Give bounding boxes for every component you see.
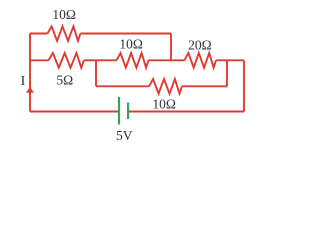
svg-text:5V: 5V [116, 128, 133, 143]
current arrow I [26, 87, 34, 93]
wire top row right of R1 [81, 33, 172, 35]
wire lower row right segment [182, 85, 227, 87]
resistor R2 5 ohm [49, 53, 85, 68]
svg-text:5Ω: 5Ω [56, 72, 73, 87]
wire bottom right of battery [128, 111, 244, 113]
resistor R4 20 ohm [185, 53, 217, 68]
wire middle row right of R4 [216, 59, 244, 61]
wire middle row left segment [30, 59, 49, 61]
svg-text:10Ω: 10Ω [52, 7, 76, 22]
svg-text:I: I [21, 74, 26, 89]
svg-text:10Ω: 10Ω [152, 97, 176, 112]
wire left vertical [29, 34, 31, 112]
wire vertical lower-row up to middle row [226, 60, 228, 86]
resistor R5 10 ohm lower [149, 79, 182, 94]
battery B1 long plate [118, 97, 120, 125]
wire lower row left segment [96, 85, 149, 87]
battery B1 short plate [127, 103, 129, 120]
wire vertical from top row down to middle row [170, 34, 172, 61]
svg-text:20Ω: 20Ω [188, 37, 212, 52]
resistor R1 10 ohm top [48, 26, 81, 41]
wire top-left horizontal [30, 33, 48, 35]
wire vertical middle-row to lower-row left [95, 60, 97, 86]
wire bottom left of battery [30, 111, 118, 113]
wire middle row between R3 and R4 [149, 59, 185, 61]
resistor R3 10 ohm middle [117, 53, 149, 68]
svg-text:10Ω: 10Ω [119, 37, 143, 52]
wire right vertical [243, 60, 245, 111]
wire middle row between R2 and R3 [84, 59, 117, 61]
